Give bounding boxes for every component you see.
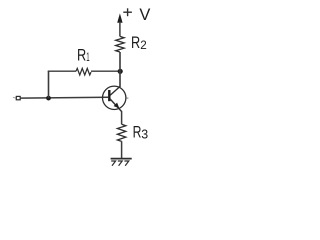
svg-text:R: R [131, 34, 140, 52]
label R3 [133, 123, 149, 142]
input terminal [13, 96, 20, 99]
wire (top horizontal to R1) [48, 70, 76, 72]
resistor R2 [116, 36, 124, 52]
svg-text:3: 3 [141, 126, 148, 141]
resistor R1 [76, 68, 91, 75]
transistor Q1 [103, 86, 129, 111]
label R1 [77, 47, 90, 65]
label R2 [131, 34, 147, 52]
wire (collector vertical) [119, 52, 121, 87]
node (base junction) [46, 96, 51, 101]
wire (input/base horizontal) [21, 96, 109, 99]
wire (emitter down) [121, 111, 123, 124]
wire (R1 right to collector node) [91, 70, 120, 72]
power +V arrow [117, 13, 122, 36]
wire (to ground) [121, 141, 123, 158]
wire (junction up) [48, 71, 50, 98]
ground [111, 159, 132, 166]
svg-text:1: 1 [86, 50, 90, 64]
resistor R3 [117, 124, 125, 141]
svg-text:R: R [133, 123, 142, 142]
node (collector junction) [118, 69, 123, 74]
svg-text:2: 2 [140, 38, 147, 52]
svg-text:V: V [139, 6, 150, 24]
label +V [123, 6, 150, 24]
svg-text:R: R [77, 47, 86, 65]
